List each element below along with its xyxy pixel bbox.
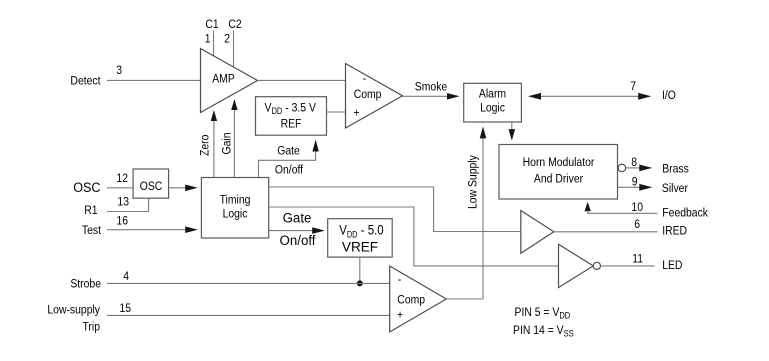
svg-text:Zero: Zero [199, 135, 212, 156]
buffer IRED driver [521, 211, 554, 254]
pin 2 [224, 33, 230, 46]
svg-text:On/off: On/off [280, 233, 316, 248]
junction on Strobe line [357, 280, 363, 286]
box Timing Logic [201, 178, 268, 239]
svg-text:VDD - 5.0: VDD - 5.0 [339, 222, 383, 240]
net label Gate (lower) [283, 210, 312, 225]
svg-text:AMP: AMP [212, 73, 235, 86]
wire Low Supply into Alarm Logic [480, 126, 487, 299]
node C1 [205, 18, 218, 31]
wire Comp2 output to Low Supply net [446, 298, 483, 300]
node C2 [228, 18, 241, 31]
svg-text:+: + [397, 309, 403, 322]
wire Strobe to Comp2 minus input [107, 282, 390, 284]
svg-text:8: 8 [631, 156, 637, 169]
svg-text:Comp: Comp [354, 88, 382, 101]
svg-text:On/off: On/off [275, 164, 304, 177]
box OSC [133, 169, 169, 198]
svg-text:Horn Modulator: Horn Modulator [523, 156, 595, 169]
wire Brass output with inverting bubble [618, 164, 652, 172]
pin 15 [119, 302, 131, 315]
svg-text:OSC: OSC [140, 180, 163, 193]
svg-text:C1: C1 [205, 18, 218, 31]
pin 6 [634, 218, 640, 231]
svg-text:16: 16 [116, 215, 128, 228]
svg-text:R1: R1 [84, 204, 97, 217]
svg-text:VREF: VREF [342, 239, 378, 254]
wire Zero control to AMP [211, 110, 217, 178]
svg-text:+: + [354, 107, 360, 120]
pin 13 [117, 196, 129, 209]
svg-text:Strobe: Strobe [70, 278, 101, 291]
pin 9 [632, 176, 638, 189]
node Brass [662, 163, 689, 176]
node Silver [662, 182, 688, 195]
node Strobe [70, 278, 101, 291]
svg-text:-: - [398, 273, 402, 286]
pin 4 [123, 270, 129, 283]
svg-text:Silver: Silver [662, 182, 688, 195]
svg-text:And Driver: And Driver [534, 173, 583, 186]
wire IRED output [554, 231, 658, 233]
comparator Comp1 [346, 64, 403, 129]
wire Comp1 output Smoke to Alarm Logic [403, 93, 460, 100]
wire C2 to AMP pin 2 [233, 31, 235, 68]
svg-text:LED: LED [662, 259, 682, 272]
svg-text:Detect: Detect [70, 75, 101, 88]
net label Low Supply [467, 155, 480, 209]
node I/O [662, 89, 676, 102]
wire R1 to OSC [107, 198, 149, 211]
pin 3 [116, 64, 122, 77]
pin 8 [631, 156, 637, 169]
net label Zero [199, 135, 212, 156]
wire Gate On/off from Timing Logic to REF [259, 140, 319, 178]
svg-text:12: 12 [116, 172, 128, 185]
svg-text:Brass: Brass [662, 163, 689, 176]
box Horn Modulator And Driver [499, 145, 618, 200]
node LED [662, 259, 682, 272]
svg-text:3: 3 [116, 64, 122, 77]
node OSC [73, 179, 101, 195]
svg-text:C2: C2 [228, 18, 241, 31]
svg-text:11: 11 [632, 253, 643, 266]
net label On/off (lower) [280, 233, 316, 248]
svg-text:4: 4 [123, 270, 129, 283]
pin 7 [630, 80, 636, 93]
pin 12 [116, 172, 128, 185]
net label Gate (upper) [277, 145, 300, 158]
svg-text:1: 1 [205, 33, 211, 46]
node R1 [84, 204, 97, 217]
node Detect [70, 75, 101, 88]
svg-text:13: 13 [117, 196, 129, 209]
pin 10 [631, 201, 643, 214]
svg-text:-: - [363, 72, 367, 85]
svg-text:REF: REF [281, 118, 302, 131]
svg-text:Logic: Logic [223, 208, 248, 221]
wire Gain control to AMP [231, 99, 237, 178]
note PIN 5 = VDD [515, 306, 571, 320]
svg-text:Feedback: Feedback [662, 207, 708, 220]
wire OSC input [107, 187, 133, 189]
note PIN 14 = VSS [513, 324, 574, 338]
box VDD-5.0 VREF [328, 219, 393, 257]
box Alarm Logic [464, 83, 522, 122]
wire LED output [601, 265, 655, 267]
svg-text:Test: Test [82, 224, 102, 237]
op-amp AMP [201, 49, 258, 113]
inverter LED driver [559, 244, 601, 287]
wire I/O bidirectional [528, 93, 651, 100]
wire Timing Logic to IRED buffer [269, 187, 521, 232]
wire OSC to Timing Logic [169, 185, 198, 192]
svg-text:Trip: Trip [82, 321, 100, 334]
wire VREF to Strobe line [359, 257, 361, 283]
pin 11 [632, 253, 643, 266]
net label Smoke [415, 81, 447, 94]
node Test [82, 224, 102, 237]
svg-text:Gate: Gate [277, 145, 300, 158]
wire REF output to Comp1 plus input [327, 111, 346, 113]
wire C1 to AMP pin 1 [213, 31, 215, 56]
svg-text:15: 15 [119, 302, 131, 315]
svg-text:OSC: OSC [73, 179, 101, 195]
svg-text:I/O: I/O [662, 89, 676, 102]
svg-text:Smoke: Smoke [415, 81, 447, 94]
svg-text:PIN 5 = VDD: PIN 5 = VDD [515, 306, 571, 320]
svg-text:Logic: Logic [480, 102, 505, 115]
svg-text:Low-supply: Low-supply [47, 304, 100, 317]
wire Silver output [618, 184, 653, 191]
svg-text:Comp: Comp [397, 294, 425, 307]
wire Feedback to Horn Modulator [585, 202, 658, 213]
wire Alarm Logic to Horn Modulator [509, 122, 516, 141]
wire AMP output to Comp1 minus input [258, 79, 346, 81]
box VDD-3.5V REF [256, 97, 327, 136]
wire Gate On/off from Timing Logic to VREF [269, 227, 325, 234]
node IRED [662, 225, 687, 238]
svg-text:PIN 14 = VSS: PIN 14 = VSS [513, 324, 574, 338]
svg-text:Gain: Gain [221, 133, 234, 155]
pin 1 [205, 33, 211, 46]
comparator Comp2 low-supply [390, 266, 447, 332]
svg-text:Alarm: Alarm [479, 88, 506, 101]
wire Test to Timing Logic [107, 226, 198, 233]
svg-text:Low Supply: Low Supply [467, 155, 480, 209]
svg-text:7: 7 [630, 80, 636, 93]
svg-text:10: 10 [631, 201, 643, 214]
svg-text:2: 2 [224, 33, 230, 46]
net label Gain [221, 133, 234, 155]
svg-text:IRED: IRED [662, 225, 687, 238]
svg-text:Gate: Gate [283, 210, 312, 225]
svg-text:6: 6 [634, 218, 640, 231]
net label On/off (upper) [275, 164, 304, 177]
wire Low-supply Trip to Comp2 plus input [107, 314, 390, 316]
node Low-supply Trip [47, 304, 100, 334]
wire Detect to AMP input [107, 79, 201, 81]
svg-text:Timing: Timing [220, 194, 251, 207]
wire Timing Logic to LED inverter [269, 207, 559, 266]
node Feedback [662, 207, 708, 220]
pin 16 [116, 215, 128, 228]
